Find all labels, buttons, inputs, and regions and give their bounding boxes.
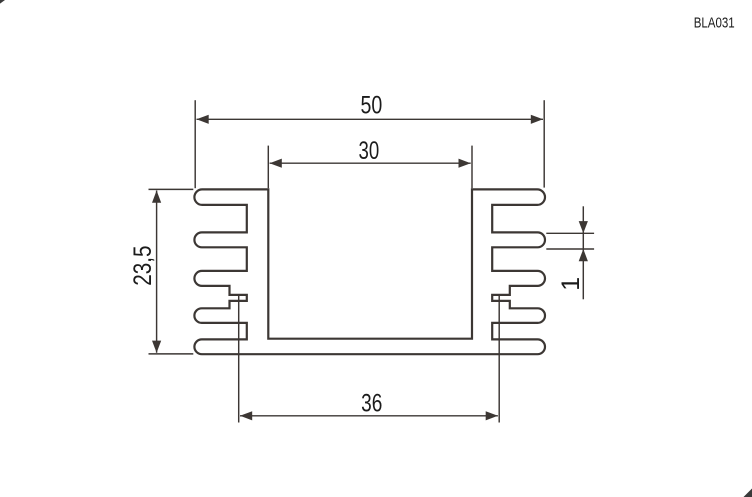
dimension 36: extension line right: [498, 296, 500, 423]
dimension 30: arrow left: [270, 159, 282, 168]
dimension 1: arrow pointing down: [579, 221, 588, 233]
svg-text:50: 50: [361, 91, 383, 119]
dimension 50: arrow left: [197, 115, 209, 124]
svg-text:BLA031: BLA031: [694, 16, 735, 32]
dimension 50: dimension line: [197, 118, 544, 120]
dimension 23,5: dimension line: [156, 191, 158, 353]
dimension 23,5: arrow bottom: [152, 341, 161, 353]
dimension 23,5: extension line bottom: [149, 353, 194, 355]
dimension 50: extension line left: [194, 100, 196, 188]
dimension 36: extension line left: [238, 296, 240, 423]
page corner mark top-left: [0, 0, 5, 4]
dimension 1: extension line bottom: [546, 248, 594, 250]
dimension 23,5: extension line top: [149, 188, 194, 190]
dimension 30: extension line right: [471, 146, 473, 189]
dimension 1: dimension line: [582, 206, 584, 299]
dimension 1: extension line top: [546, 232, 594, 234]
svg-text:23,5: 23,5: [129, 246, 157, 286]
heatsink profile outline: [194, 189, 545, 354]
dimension 36: dimension line: [240, 415, 498, 417]
dimension 1: arrow pointing up: [579, 249, 588, 261]
page corner mark bottom-right: [744, 489, 752, 497]
svg-text:36: 36: [361, 389, 382, 417]
dimension 50: arrow right: [531, 115, 543, 124]
dimension 30: extension line left: [267, 146, 269, 189]
dimension 36: arrow left: [240, 411, 252, 420]
dimension 50: extension line right: [543, 100, 545, 187]
dimension 36: arrow right: [486, 411, 498, 420]
svg-text:30: 30: [359, 137, 380, 165]
svg-text:1: 1: [557, 277, 585, 291]
dimension 30: arrow right: [459, 159, 471, 168]
dimension 23,5: arrow top: [152, 191, 161, 203]
dimension 30: dimension line: [270, 162, 471, 164]
